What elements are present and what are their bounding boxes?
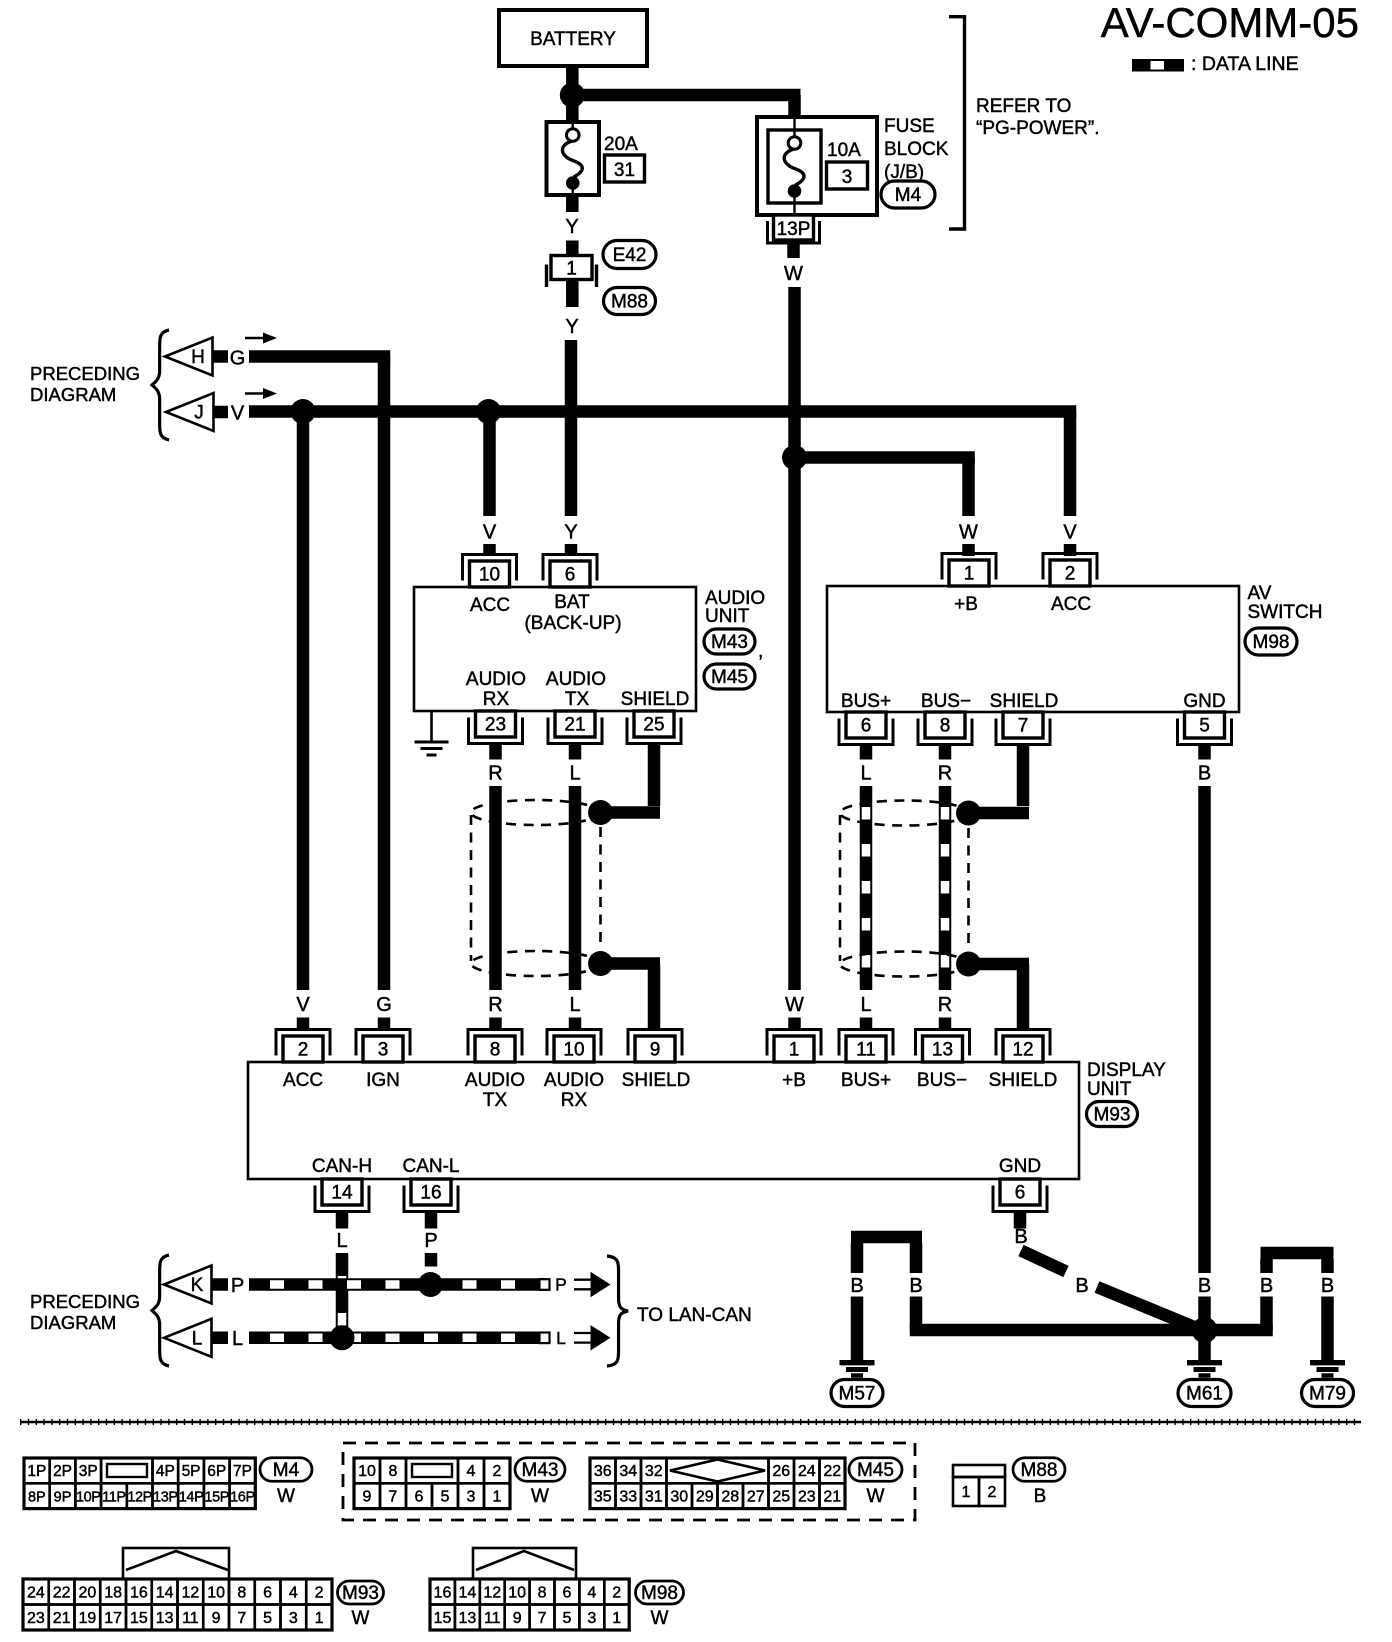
svg-text:IGN: IGN xyxy=(366,1070,400,1091)
svg-text:9: 9 xyxy=(513,1610,522,1627)
svg-text:8: 8 xyxy=(490,1040,501,1061)
svg-text:M4: M4 xyxy=(273,1460,300,1481)
svg-text:7: 7 xyxy=(1018,716,1029,737)
svg-text:AUDIO: AUDIO xyxy=(544,1070,604,1091)
svg-text:25: 25 xyxy=(772,1488,790,1505)
svg-text:3: 3 xyxy=(467,1488,476,1505)
svg-text:M43: M43 xyxy=(711,632,748,653)
svg-text:G: G xyxy=(230,348,246,370)
svg-text:24: 24 xyxy=(798,1463,816,1480)
svg-text:6: 6 xyxy=(565,565,576,586)
svg-text:GND: GND xyxy=(999,1156,1041,1177)
svg-text:ACC: ACC xyxy=(283,1070,323,1091)
svg-text:Y: Y xyxy=(564,522,577,544)
svg-text:TO LAN-CAN: TO LAN-CAN xyxy=(637,1305,752,1326)
svg-text:W: W xyxy=(277,1486,295,1507)
svg-text:23: 23 xyxy=(485,715,506,736)
svg-text:4: 4 xyxy=(467,1463,476,1480)
svg-text:W: W xyxy=(867,1486,885,1507)
svg-text:8: 8 xyxy=(237,1584,246,1601)
svg-text:V: V xyxy=(483,522,497,544)
svg-text:AV-COMM-05: AV-COMM-05 xyxy=(1101,0,1359,46)
svg-text:M57: M57 xyxy=(839,1384,876,1405)
svg-text:13: 13 xyxy=(156,1610,174,1627)
svg-text:DISPLAY: DISPLAY xyxy=(1087,1060,1166,1081)
svg-text:M43: M43 xyxy=(522,1460,559,1481)
svg-text:23: 23 xyxy=(798,1488,816,1505)
svg-text:J: J xyxy=(194,403,204,424)
svg-text:7: 7 xyxy=(237,1610,246,1627)
svg-text:W: W xyxy=(651,1608,669,1629)
svg-text:10P: 10P xyxy=(76,1489,101,1505)
svg-text:2: 2 xyxy=(612,1584,621,1601)
svg-text:16: 16 xyxy=(420,1183,441,1204)
svg-text:BUS+: BUS+ xyxy=(841,1070,891,1091)
svg-text:BUS−: BUS− xyxy=(917,1070,967,1091)
svg-text:M61: M61 xyxy=(1186,1384,1223,1405)
svg-text:1: 1 xyxy=(612,1610,621,1627)
svg-text:B: B xyxy=(1014,1226,1027,1248)
svg-text:BLOCK: BLOCK xyxy=(884,139,949,160)
svg-text:+B: +B xyxy=(782,1070,806,1091)
svg-text:11: 11 xyxy=(182,1610,199,1627)
svg-text:9: 9 xyxy=(212,1610,221,1627)
svg-text:R: R xyxy=(488,994,502,1016)
svg-text:1: 1 xyxy=(493,1488,502,1505)
svg-text:L: L xyxy=(569,994,580,1016)
svg-text:B: B xyxy=(1198,1275,1211,1297)
svg-text:10: 10 xyxy=(563,1040,584,1061)
svg-text:10: 10 xyxy=(508,1584,526,1601)
svg-text:BUS−: BUS− xyxy=(921,691,971,712)
svg-text:9P: 9P xyxy=(54,1489,72,1505)
svg-text:22: 22 xyxy=(53,1584,71,1601)
svg-text:ACC: ACC xyxy=(470,595,510,616)
svg-text:2: 2 xyxy=(1065,564,1076,585)
svg-text:15P: 15P xyxy=(204,1489,229,1505)
svg-text:18: 18 xyxy=(104,1584,122,1601)
svg-text:31: 31 xyxy=(614,160,635,181)
svg-text:14P: 14P xyxy=(179,1489,204,1505)
svg-text:11: 11 xyxy=(856,1040,876,1061)
svg-text:8: 8 xyxy=(940,716,951,737)
svg-text:12: 12 xyxy=(1012,1040,1033,1061)
svg-text:2: 2 xyxy=(493,1463,502,1480)
svg-text:UNIT: UNIT xyxy=(1087,1079,1132,1100)
svg-text:13P: 13P xyxy=(153,1489,178,1505)
svg-text:24: 24 xyxy=(27,1584,45,1601)
svg-text:11P: 11P xyxy=(102,1489,126,1505)
svg-text:20: 20 xyxy=(78,1584,96,1601)
svg-text:GND: GND xyxy=(1183,691,1225,712)
svg-text:CAN-H: CAN-H xyxy=(312,1156,372,1177)
svg-text:R: R xyxy=(938,994,952,1016)
svg-text:6: 6 xyxy=(861,716,872,737)
svg-text:B: B xyxy=(850,1275,863,1297)
svg-text:8: 8 xyxy=(389,1463,398,1480)
svg-text:UNIT: UNIT xyxy=(705,606,750,627)
svg-text:W: W xyxy=(959,522,978,544)
svg-text:K: K xyxy=(191,1275,204,1296)
svg-text:DIAGRAM: DIAGRAM xyxy=(30,1312,116,1333)
svg-text:14: 14 xyxy=(156,1584,174,1601)
svg-text:7: 7 xyxy=(389,1488,398,1505)
svg-text:10: 10 xyxy=(207,1584,225,1601)
svg-text:17: 17 xyxy=(104,1610,122,1627)
svg-text:8P: 8P xyxy=(28,1489,46,1505)
svg-text:AV: AV xyxy=(1248,583,1272,604)
svg-text:V: V xyxy=(231,403,245,425)
svg-text:SHIELD: SHIELD xyxy=(990,691,1059,712)
svg-text:16: 16 xyxy=(130,1584,148,1601)
svg-text:30: 30 xyxy=(670,1488,688,1505)
svg-text:1: 1 xyxy=(789,1040,800,1061)
svg-text:SHIELD: SHIELD xyxy=(622,1070,691,1091)
svg-text:BATTERY: BATTERY xyxy=(530,29,616,50)
svg-text:14: 14 xyxy=(331,1183,353,1204)
svg-text:2: 2 xyxy=(315,1584,324,1601)
svg-text:M93: M93 xyxy=(1094,1105,1131,1126)
svg-text:3: 3 xyxy=(289,1610,298,1627)
svg-text:12: 12 xyxy=(483,1584,501,1601)
svg-text:12: 12 xyxy=(181,1584,199,1601)
svg-text:M88: M88 xyxy=(611,292,648,313)
svg-text:21: 21 xyxy=(53,1610,71,1627)
svg-text:34: 34 xyxy=(619,1463,637,1480)
svg-text:19: 19 xyxy=(78,1610,96,1627)
svg-text:R: R xyxy=(938,763,952,785)
svg-text:BAT: BAT xyxy=(554,592,590,613)
svg-text:3: 3 xyxy=(587,1610,596,1627)
svg-text:CAN-L: CAN-L xyxy=(402,1156,459,1177)
svg-text:4P: 4P xyxy=(156,1463,175,1480)
svg-text:SHIELD: SHIELD xyxy=(989,1070,1058,1091)
svg-text:P: P xyxy=(424,1230,437,1252)
svg-text:21: 21 xyxy=(564,715,585,736)
svg-text:2: 2 xyxy=(988,1484,997,1501)
svg-text:(BACK-UP): (BACK-UP) xyxy=(524,613,621,634)
svg-text:10: 10 xyxy=(358,1463,376,1480)
svg-text:1: 1 xyxy=(566,259,577,280)
svg-text:M4: M4 xyxy=(895,185,922,206)
svg-text:15: 15 xyxy=(130,1610,148,1627)
svg-text:32: 32 xyxy=(645,1463,663,1480)
svg-text:10: 10 xyxy=(479,565,500,586)
svg-text:PRECEDING: PRECEDING xyxy=(30,363,140,384)
svg-text:5: 5 xyxy=(562,1610,571,1627)
svg-text:H: H xyxy=(191,347,205,368)
svg-text:4: 4 xyxy=(587,1584,596,1601)
svg-text:P: P xyxy=(555,1275,567,1295)
svg-text:2P: 2P xyxy=(53,1463,72,1480)
svg-text:14: 14 xyxy=(458,1584,476,1601)
svg-text:M45: M45 xyxy=(711,667,748,688)
svg-text:REFER TO: REFER TO xyxy=(976,96,1071,117)
svg-text:R: R xyxy=(488,763,502,785)
svg-text:AUDIO: AUDIO xyxy=(546,669,606,690)
svg-text:20A: 20A xyxy=(604,134,638,155)
svg-text:M79: M79 xyxy=(1309,1384,1346,1405)
svg-text:13: 13 xyxy=(932,1040,953,1061)
svg-text:V: V xyxy=(296,994,310,1016)
svg-text:23: 23 xyxy=(27,1610,45,1627)
svg-text:AUDIO: AUDIO xyxy=(465,1070,525,1091)
svg-text:M88: M88 xyxy=(1021,1460,1058,1481)
svg-text:L: L xyxy=(192,1328,203,1349)
svg-text:M98: M98 xyxy=(1253,632,1290,653)
svg-text:TX: TX xyxy=(483,1090,508,1111)
svg-text:L: L xyxy=(569,763,580,785)
svg-text:16P: 16P xyxy=(230,1489,255,1505)
svg-text:12P: 12P xyxy=(127,1489,152,1505)
svg-text:5P: 5P xyxy=(182,1463,201,1480)
svg-text:26: 26 xyxy=(772,1463,790,1480)
svg-text:5: 5 xyxy=(1199,716,1210,737)
svg-text:25: 25 xyxy=(643,715,664,736)
svg-text:6P: 6P xyxy=(207,1463,226,1480)
svg-text:RX: RX xyxy=(561,1090,588,1111)
svg-text:2: 2 xyxy=(298,1040,309,1061)
svg-text:15: 15 xyxy=(434,1610,452,1627)
svg-text:1P: 1P xyxy=(27,1463,46,1480)
svg-text:DIAGRAM: DIAGRAM xyxy=(30,384,116,405)
svg-text:22: 22 xyxy=(823,1463,841,1480)
svg-text:SHIELD: SHIELD xyxy=(621,689,690,710)
svg-text:1: 1 xyxy=(964,564,975,585)
svg-text:G: G xyxy=(376,994,392,1016)
svg-text:9: 9 xyxy=(650,1040,661,1061)
svg-text:5: 5 xyxy=(441,1488,450,1505)
svg-text:7P: 7P xyxy=(233,1463,252,1480)
svg-text:3P: 3P xyxy=(79,1463,98,1480)
svg-text:BUS+: BUS+ xyxy=(841,691,891,712)
svg-text:5: 5 xyxy=(263,1610,272,1627)
svg-text:+B: +B xyxy=(954,594,978,615)
svg-text:10A: 10A xyxy=(827,140,861,161)
svg-text:6: 6 xyxy=(1015,1183,1026,1204)
svg-text:9: 9 xyxy=(363,1488,372,1505)
svg-text:Y: Y xyxy=(565,216,578,238)
svg-text:V: V xyxy=(1063,522,1077,544)
svg-text:M93: M93 xyxy=(342,1583,379,1604)
svg-text:27: 27 xyxy=(747,1488,765,1505)
svg-text:L: L xyxy=(860,763,871,785)
svg-text:B: B xyxy=(1075,1275,1088,1297)
svg-text:21: 21 xyxy=(823,1488,841,1505)
svg-text:3: 3 xyxy=(378,1040,389,1061)
svg-text:: DATA LINE: : DATA LINE xyxy=(1191,53,1299,75)
svg-text:B: B xyxy=(1034,1486,1047,1507)
svg-text:1: 1 xyxy=(315,1610,324,1627)
svg-text:11: 11 xyxy=(484,1610,501,1627)
svg-text:W: W xyxy=(784,263,803,285)
svg-text:P: P xyxy=(231,1275,244,1297)
svg-text:M45: M45 xyxy=(857,1460,894,1481)
svg-text:L: L xyxy=(232,1328,243,1350)
svg-text:M98: M98 xyxy=(641,1583,678,1604)
svg-text:,: , xyxy=(758,641,763,662)
svg-text:W: W xyxy=(352,1608,370,1629)
svg-text:6: 6 xyxy=(562,1584,571,1601)
svg-text:13: 13 xyxy=(458,1610,476,1627)
svg-text:35: 35 xyxy=(594,1488,612,1505)
svg-text:PRECEDING: PRECEDING xyxy=(30,1291,140,1312)
svg-text:L: L xyxy=(860,994,871,1016)
svg-text:29: 29 xyxy=(696,1488,714,1505)
svg-text:E42: E42 xyxy=(613,245,647,266)
svg-text:7: 7 xyxy=(538,1610,547,1627)
svg-text:RX: RX xyxy=(483,689,510,710)
svg-text:“PG-POWER”.: “PG-POWER”. xyxy=(976,118,1100,139)
svg-text:W: W xyxy=(785,994,804,1016)
svg-text:33: 33 xyxy=(619,1488,637,1505)
svg-text:B: B xyxy=(1260,1275,1273,1297)
svg-text:6: 6 xyxy=(263,1584,272,1601)
svg-text:FUSE: FUSE xyxy=(884,116,935,137)
svg-text:B: B xyxy=(909,1275,922,1297)
svg-text:16: 16 xyxy=(434,1584,452,1601)
svg-text:TX: TX xyxy=(565,689,590,710)
svg-text:AUDIO: AUDIO xyxy=(466,669,526,690)
svg-text:B: B xyxy=(1198,763,1211,785)
svg-text:W: W xyxy=(531,1486,549,1507)
svg-text:ACC: ACC xyxy=(1051,594,1091,615)
svg-text:1: 1 xyxy=(962,1484,971,1501)
svg-text:36: 36 xyxy=(594,1463,612,1480)
svg-text:13P: 13P xyxy=(777,219,811,240)
svg-text:B: B xyxy=(1321,1275,1334,1297)
svg-text:4: 4 xyxy=(289,1584,298,1601)
svg-text:28: 28 xyxy=(721,1488,739,1505)
svg-text:8: 8 xyxy=(538,1584,547,1601)
svg-text:Y: Y xyxy=(565,316,578,338)
svg-text:31: 31 xyxy=(645,1488,663,1505)
svg-text:L: L xyxy=(556,1328,566,1348)
svg-text:L: L xyxy=(336,1230,347,1252)
svg-text:6: 6 xyxy=(415,1488,424,1505)
svg-text:3: 3 xyxy=(842,167,853,188)
svg-text:SWITCH: SWITCH xyxy=(1248,602,1323,623)
